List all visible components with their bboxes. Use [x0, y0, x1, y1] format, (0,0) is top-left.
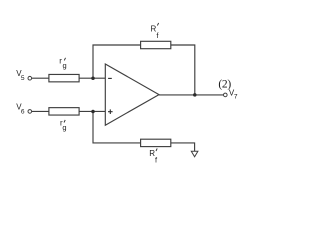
resistor R'f (bottom) — [141, 139, 171, 146]
svg-text:6: 6 — [21, 108, 25, 115]
node A junction dot (inverting input) — [91, 77, 95, 81]
label R'f (top) — [151, 23, 160, 40]
label V7 — [229, 89, 238, 101]
wire: Rf bottom to ground — [171, 143, 195, 151]
terminal V5 — [28, 76, 32, 80]
wire: r'g bottom to op-amp non-inverting input — [79, 110, 105, 112]
wire: r'g top to op-amp inverting input — [79, 77, 105, 79]
node B junction dot (non-inverting input) — [91, 110, 95, 114]
node 2 junction dot (output) — [193, 93, 197, 97]
op-amp plus pin marker — [108, 111, 113, 113]
op-amp U1 — [105, 64, 159, 125]
wire: node B down to Rf bottom — [93, 111, 141, 142]
resistor r'g (top) — [49, 74, 79, 81]
svg-text:f: f — [156, 31, 159, 40]
ground — [191, 151, 198, 157]
label V5 — [16, 69, 25, 82]
svg-text:g: g — [63, 61, 67, 70]
resistor R'f (top feedback) — [141, 41, 171, 48]
label r'g (bottom) — [60, 119, 67, 132]
label R'f (bottom) — [149, 148, 158, 164]
wire: V5 terminal to r'g (top input) — [32, 77, 49, 79]
wire: V6 terminal to r'g (bottom input) — [32, 110, 49, 112]
wire: Rf top to output vertical — [171, 45, 195, 95]
svg-text:f: f — [155, 155, 158, 164]
op-amp minus pin marker — [108, 77, 112, 79]
wire: op-amp output to V7 terminal — [159, 94, 224, 96]
terminal V7 — [224, 93, 228, 97]
svg-text:g: g — [62, 123, 66, 132]
resistor r'g (bottom) — [49, 108, 79, 115]
svg-text:7: 7 — [234, 94, 238, 101]
terminal V6 — [28, 110, 32, 114]
svg-text:5: 5 — [21, 75, 25, 82]
label V6 — [16, 102, 25, 115]
label r'g (top) — [59, 56, 66, 70]
wire: node A up to feedback Rf top — [93, 45, 141, 78]
